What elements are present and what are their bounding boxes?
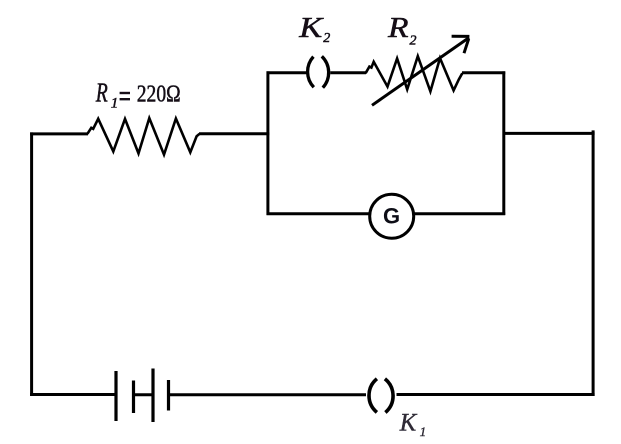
svg-text:K: K <box>399 409 418 436</box>
wire K2 to R2 <box>330 71 366 74</box>
wire block right vertical <box>502 71 505 215</box>
rheostat R2 zigzag <box>366 56 463 91</box>
svg-text:1: 1 <box>111 96 119 112</box>
svg-text:G: G <box>383 204 400 229</box>
wire main right connector <box>504 132 595 135</box>
svg-text:220Ω: 220Ω <box>137 82 181 108</box>
label K1 <box>399 409 426 439</box>
label R2 <box>387 12 417 48</box>
key K2 <box>308 56 329 87</box>
svg-text:K: K <box>298 12 324 44</box>
label R1 = 220 ohm <box>95 79 181 112</box>
battery cells <box>116 369 169 423</box>
svg-text:R: R <box>387 12 409 44</box>
label K2 <box>298 12 330 46</box>
wire right vertical <box>592 130 595 396</box>
wire bottom branch left to G <box>267 212 371 215</box>
svg-text:R: R <box>95 79 108 109</box>
rheostat R2 arrow <box>372 36 469 105</box>
wire R2 to block right <box>462 71 505 74</box>
wire left vertical <box>30 132 33 396</box>
wire top-left horizontal to R1 <box>30 132 88 135</box>
wire battery connector <box>132 393 155 396</box>
key K1 <box>369 379 393 413</box>
wire K1 to bottom-right <box>397 393 595 396</box>
wire bottom-left to battery <box>30 393 116 396</box>
wire battery to K1 <box>167 393 366 396</box>
svg-text:2: 2 <box>323 31 330 46</box>
resistor R1 <box>87 118 199 155</box>
wire G to block right <box>413 212 505 215</box>
wire block left vertical <box>266 71 269 215</box>
wire R1 to block left <box>199 132 269 135</box>
svg-text:2: 2 <box>410 33 417 48</box>
wire top branch left segment <box>267 71 308 74</box>
svg-text:1: 1 <box>420 424 427 439</box>
galvanometer G circle <box>370 194 414 238</box>
